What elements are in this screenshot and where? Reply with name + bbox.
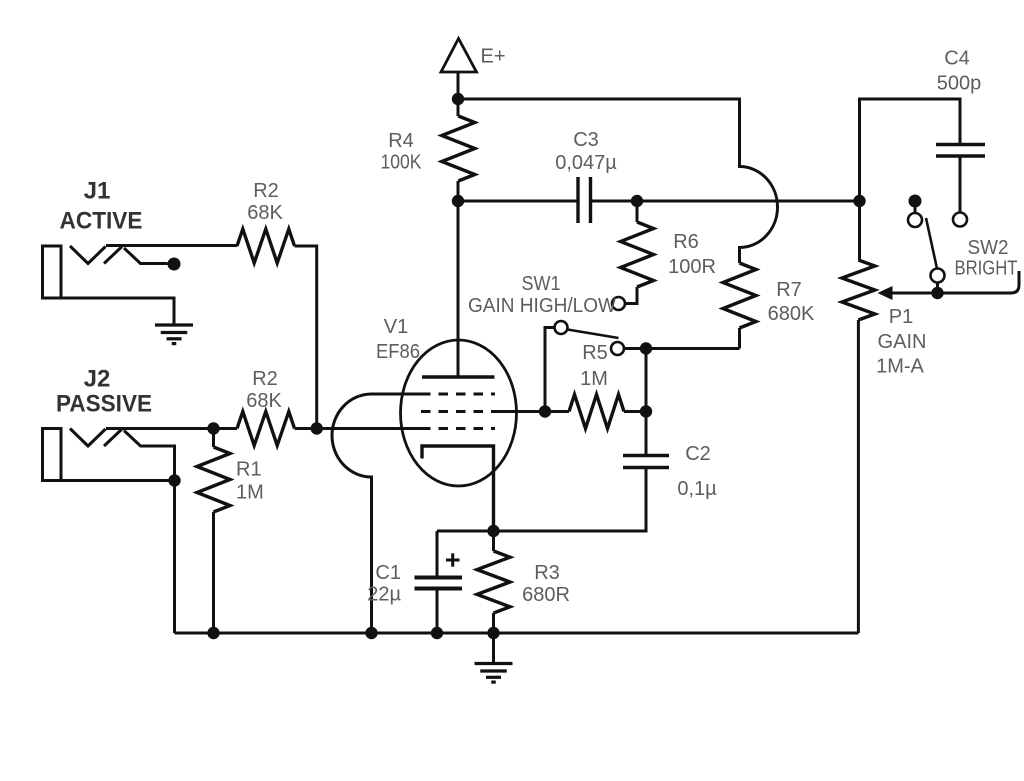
jack J2 switch arm <box>124 431 175 481</box>
node wiper-SW2 junction <box>931 287 943 299</box>
svg-text:P1: P1 <box>889 306 913 328</box>
switch SW2 pole circle <box>908 213 922 227</box>
svg-text:GAIN HIGH/LOW: GAIN HIGH/LOW <box>468 295 616 317</box>
node J2 sleeve junction <box>168 474 180 486</box>
label R2 upper <box>247 180 283 224</box>
resistor R7 <box>723 263 756 349</box>
svg-text:ACTIVE: ACTIVE <box>60 208 143 235</box>
node g3 wire junction <box>365 627 377 639</box>
svg-text:J1: J1 <box>84 178 111 205</box>
svg-text:BRIGHT: BRIGHT <box>955 258 1018 280</box>
node R1 bottom junction <box>207 627 219 639</box>
node cathode junction <box>487 525 499 537</box>
node C3-R6 junction <box>631 195 643 207</box>
svg-text:1M-A: 1M-A <box>876 356 924 378</box>
capacitor C2 <box>494 412 670 532</box>
capacitor C1 electrolytic <box>415 531 463 633</box>
tube V1 envelope <box>401 340 517 486</box>
svg-text:V1: V1 <box>384 316 408 338</box>
wire junction down to R5 right node <box>645 349 648 412</box>
wire P1 top to C4 <box>860 99 961 201</box>
tube V1 grid g3 dashed <box>421 393 495 396</box>
svg-text:100R: 100R <box>668 256 716 278</box>
resistor R2 upper <box>237 229 317 429</box>
svg-text:0,1µ: 0,1µ <box>677 478 717 500</box>
node bus-P1 junction <box>853 195 865 207</box>
capacitor C1 plus sign <box>446 553 460 566</box>
svg-text:1M: 1M <box>236 482 264 504</box>
svg-text:1M: 1M <box>580 368 608 390</box>
wire ground bus bottom <box>175 632 859 635</box>
svg-text:500p: 500p <box>937 73 982 95</box>
resistor R1 <box>197 428 230 633</box>
wire anode to C3 <box>458 200 578 203</box>
switch SW1 pole circle <box>555 321 568 334</box>
capacitor C4 <box>936 145 985 213</box>
tube V1 cathode <box>422 446 494 531</box>
wire C3 to node <box>591 200 638 203</box>
svg-text:R1: R1 <box>236 459 262 481</box>
svg-text:C4: C4 <box>944 48 970 70</box>
label R3 <box>522 562 570 606</box>
svg-text:R3: R3 <box>534 562 560 584</box>
potentiometer P1 wiper arrow <box>878 271 1020 300</box>
svg-text:R5: R5 <box>582 342 608 364</box>
label E+ <box>480 46 505 68</box>
ground J1 <box>155 325 193 344</box>
switch SW2 pole dot <box>909 195 922 214</box>
svg-text:E+: E+ <box>480 46 505 68</box>
label R1 <box>236 459 264 504</box>
potentiometer P1 <box>842 201 875 633</box>
label R2 lower <box>246 368 282 412</box>
wire R7 bottom to SW1 node <box>646 347 740 350</box>
svg-text:100K: 100K <box>381 152 423 174</box>
resistor R2 lower <box>214 412 317 446</box>
svg-text:0,047µ: 0,047µ <box>555 152 617 174</box>
node grid junction <box>311 422 323 434</box>
wire J2 sleeve to bus <box>61 481 175 634</box>
label C3 <box>555 129 617 174</box>
wire g3 to ground bus with hop over g1 <box>332 394 421 633</box>
node supply junction top <box>452 93 464 105</box>
terminal C4 contact circle <box>953 213 967 227</box>
svg-text:PASSIVE: PASSIVE <box>56 391 152 418</box>
jack J1 switch arm <box>124 248 181 271</box>
resistor R5 <box>545 395 646 429</box>
jack J2 body <box>43 429 62 481</box>
ground main <box>475 633 513 682</box>
wire cathode bus <box>437 530 646 533</box>
wire signal bus to P1 top <box>637 200 860 203</box>
label C2 <box>677 443 717 500</box>
label SW1 <box>468 273 616 317</box>
label R5 <box>580 342 608 390</box>
terminal SW1 lower contact circle <box>611 342 624 355</box>
label J1 <box>60 178 143 235</box>
switch SW2 arm <box>926 218 937 269</box>
jack J1 tip contacts <box>70 246 122 264</box>
wire g2 to SW1 node <box>495 410 546 413</box>
jack J2 tip contacts <box>70 429 122 447</box>
label C4 <box>937 48 982 95</box>
tube V1 grid g2 dashed <box>421 410 495 413</box>
label V1 <box>376 316 420 363</box>
svg-text:C3: C3 <box>573 129 599 151</box>
switch SW2 throw circle <box>931 269 945 294</box>
power E+ symbol <box>441 39 477 100</box>
wire top bus to R7 with hop over signal bus <box>458 99 778 263</box>
tube V1 anode <box>422 201 495 377</box>
svg-text:R7: R7 <box>776 279 802 301</box>
svg-text:SW2: SW2 <box>968 237 1009 259</box>
label R4 value <box>381 130 423 174</box>
svg-text:R2: R2 <box>252 368 278 390</box>
svg-text:680R: 680R <box>522 584 570 606</box>
label J2 <box>56 366 152 418</box>
label R6 <box>668 231 716 278</box>
svg-text:R4: R4 <box>388 130 414 152</box>
switch SW1 pole wire <box>545 328 555 412</box>
resistor R4 <box>442 99 475 201</box>
resistor R6 <box>621 201 654 304</box>
svg-text:R6: R6 <box>673 231 699 253</box>
svg-text:22µ: 22µ <box>367 584 401 606</box>
capacitor C3 <box>578 177 591 223</box>
resistor R3 <box>477 531 510 633</box>
svg-text:68K: 68K <box>246 390 282 412</box>
svg-text:SW1: SW1 <box>522 273 561 295</box>
svg-text:680K: 680K <box>768 303 815 325</box>
node R5 left g2 junction <box>539 405 551 417</box>
node R3 bottom junction <box>487 627 499 639</box>
node C1 bottom junction <box>431 627 443 639</box>
wire J2 tip to R2 node <box>106 427 214 430</box>
svg-text:68K: 68K <box>247 202 283 224</box>
wire grid node to tube g1 <box>317 427 421 430</box>
label C1 <box>367 562 401 606</box>
svg-text:GAIN: GAIN <box>878 331 927 353</box>
jack J1 body <box>43 246 62 298</box>
node R2-R1 junction <box>207 422 219 434</box>
label R7 <box>768 279 815 325</box>
wire J1 sleeve to ground <box>61 298 174 324</box>
svg-text:C2: C2 <box>685 443 711 465</box>
label P1 <box>876 306 926 378</box>
switch SW1 arm <box>568 330 619 339</box>
svg-text:C1: C1 <box>375 562 401 584</box>
tube V1 grid g1 dashed <box>421 427 495 430</box>
wire J1 tip to R2 <box>106 244 237 247</box>
node R5 right junction <box>640 405 652 417</box>
svg-text:R2: R2 <box>253 180 279 202</box>
label SW2 <box>955 237 1018 280</box>
terminal R6 contact circle <box>612 297 625 310</box>
node SW1-R7 junction <box>640 342 652 354</box>
svg-text:EF86: EF86 <box>376 341 420 363</box>
node anode junction <box>452 195 464 207</box>
svg-text:J2: J2 <box>84 366 111 393</box>
wire contact to R5 node <box>624 347 646 350</box>
